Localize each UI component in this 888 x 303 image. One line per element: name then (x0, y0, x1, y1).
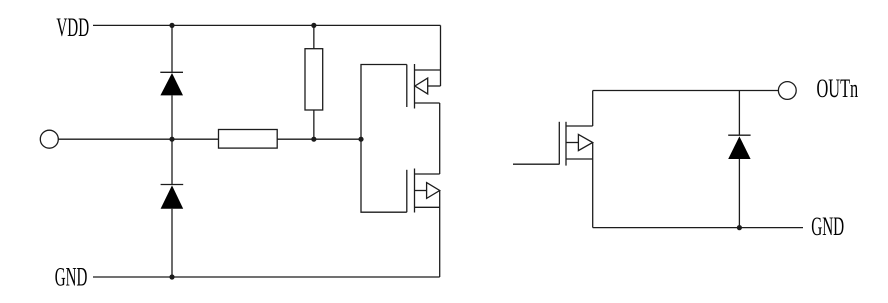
op pmos M1 gate bar (406, 65, 408, 108)
wire: input node to diode D2 cathode (171, 139, 173, 184)
OUTn terminal circle (778, 82, 796, 100)
wire: M2 source to GND rail (439, 191, 441, 278)
wire: Q1 bulk lead (566, 142, 578, 144)
wire GND rail (93, 276, 440, 278)
svg-text:VDD: VDD (56, 13, 89, 42)
svg-text:OUTn: OUTn (817, 74, 859, 103)
wire: Q1 source down to GND rail (592, 143, 594, 228)
wire: M2 drain lead (415, 173, 440, 175)
node: input wire x diode branch (169, 137, 174, 142)
transistor M2 NMOS channel bar (414, 169, 416, 213)
wire: R1 to gate node (277, 138, 361, 140)
wire: gate bracket (361, 65, 407, 213)
transistor M2 NMOS gate bar (406, 170, 408, 212)
wire: M1 drain to M2 drain (439, 103, 441, 174)
wire VDD rail (93, 24, 441, 26)
wire: VDD to diode D1 cathode (171, 25, 173, 72)
wire: Q1 drain lead (566, 125, 593, 127)
wire: VDD rail down to M1 (440, 25, 442, 86)
input terminal circle (40, 130, 58, 148)
transistor M2 NMOS bulk arrow (427, 183, 440, 199)
resistor R1 (series input) (219, 130, 278, 149)
node: gate bracket junction (358, 137, 363, 142)
wire: M1 source lead (415, 69, 441, 71)
wire: Q1 gate lead (513, 163, 559, 165)
wire: Q1 drain up to OUTn rail (592, 91, 594, 127)
node: VDD x diode branch (169, 23, 174, 28)
resistor R2 (pull-up) (305, 49, 323, 110)
wire: D1 anode to input node (171, 95, 173, 139)
svg-text:GND: GND (811, 212, 844, 241)
wire: OUTn rail to D3 cathode (738, 91, 740, 136)
svg-text:GND: GND (55, 262, 88, 291)
node: VDD x resistor R2 branch (311, 23, 316, 28)
wire: M1 drain lead (415, 102, 440, 104)
wire: D2 anode to GND rail (171, 209, 173, 277)
wire: M1 bulk lead (428, 85, 441, 87)
diode D3 (flyback to OUTn) (728, 135, 750, 159)
transistor M1 PMOS channel bar (414, 64, 416, 109)
node: GND rail x diode D3 branch (737, 225, 742, 230)
transistor Q1 NMOS channel bar (565, 122, 567, 166)
transistor M1 PMOS bulk arrow (415, 78, 428, 94)
diode D1 (to VDD) (160, 72, 183, 95)
wire: M2 bulk lead (415, 190, 427, 192)
node: GND rail x diode branch (169, 274, 174, 279)
node: R2 bottom x input wire (311, 137, 316, 142)
wire: VDD to R2 top (313, 25, 315, 48)
wire: OUTn rail (593, 90, 779, 92)
wire: M2 source lead (415, 206, 440, 208)
wire: R2 bottom to input wire (313, 110, 315, 139)
diode D2 (from GND) (161, 185, 184, 209)
wire: input to R1 (58, 138, 218, 140)
wire: GND rail right (593, 227, 803, 229)
transistor Q1 NMOS bulk arrow (578, 134, 592, 150)
transistor Q1 NMOS gate bar (558, 122, 560, 165)
wire: Q1 source lead (566, 158, 593, 160)
wire: D3 anode to GND rail (738, 159, 740, 228)
